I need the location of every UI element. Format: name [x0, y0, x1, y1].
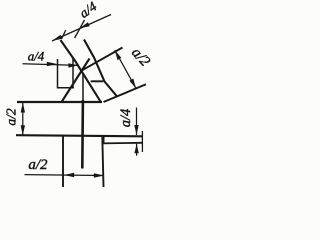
center stem upper	[82, 74, 84, 101]
arrowhead a/2 bottom left	[64, 173, 74, 177]
svg-text:a/2: a/2	[128, 45, 153, 70]
center stem	[81, 100, 84, 169]
arrowhead a/2 left upper	[21, 103, 25, 113]
arrowhead a/4 left at bar edge	[68, 63, 78, 67]
dimension a/4 left line	[23, 64, 80, 66]
extension tick 2 top	[75, 20, 85, 38]
dimension a/2 left line	[22, 103, 24, 136]
bar right edge	[84, 40, 117, 96]
plate bottom line	[16, 135, 143, 136]
step connector	[103, 136, 105, 143]
crossbar	[91, 80, 104, 82]
arrowhead a/4 left at box	[47, 62, 57, 66]
arrowhead a/2 left lower	[21, 125, 25, 135]
svg-text:a/4: a/4	[28, 49, 45, 64]
lower member right edge	[102, 136, 103, 187]
arrowhead a/4 top end	[52, 35, 62, 41]
box left side	[57, 59, 59, 89]
svg-text:a/2: a/2	[4, 108, 19, 126]
end tick	[141, 131, 143, 152]
section line S1	[81, 48, 122, 71]
bottom cut S2	[104, 84, 147, 102]
arrowhead a/4 top mid	[80, 22, 90, 28]
extension tick 1 top	[62, 30, 66, 39]
dimension a/4 top line	[52, 15, 111, 42]
offset line right	[103, 142, 143, 145]
arrowhead a/4 right down	[134, 125, 138, 135]
svg-text:a/4: a/4	[118, 109, 134, 128]
svg-text:a/2: a/2	[28, 157, 48, 173]
plate top line	[17, 101, 102, 103]
dimension a/2 right line	[115, 50, 136, 88]
arrowhead a/4 right up	[134, 144, 138, 154]
svg-text:a/4: a/4	[77, 0, 100, 21]
box bottom	[57, 87, 74, 89]
bar left edge / triangle right edge	[61, 40, 101, 102]
arrowhead a/2 bottom right	[94, 173, 104, 177]
dimension a/4 right lower stub	[136, 144, 138, 156]
triangle left edge	[61, 59, 89, 103]
arrowhead a/2 right upper	[115, 50, 122, 60]
dimension a/2 bottom line	[25, 174, 105, 177]
dimension a/4 right line	[136, 108, 138, 136]
arrowhead a/2 right lower	[129, 79, 136, 89]
box right side	[72, 59, 74, 88]
lower member left edge	[62, 136, 64, 187]
